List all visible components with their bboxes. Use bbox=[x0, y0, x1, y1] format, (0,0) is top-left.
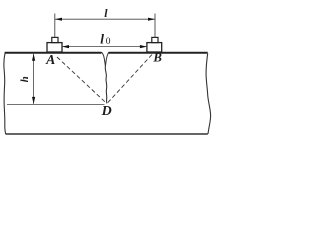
probe B stem / dimension-l right extension line bbox=[154, 14, 156, 38]
dimension h top arrowhead bbox=[32, 54, 35, 61]
dimension l0 left arrowhead bbox=[62, 45, 69, 48]
probe A stem / dimension-l left extension line bbox=[54, 14, 56, 38]
svg-text:h: h bbox=[19, 76, 31, 82]
dimension h line bbox=[33, 54, 35, 104]
dimension l0 line bbox=[62, 46, 147, 48]
svg-text:0: 0 bbox=[106, 37, 111, 47]
test block bottom edge bbox=[6, 133, 208, 135]
test block left broken edge bbox=[4, 53, 6, 134]
svg-text:B: B bbox=[152, 51, 162, 65]
test block top surface (right of notch) bbox=[109, 52, 208, 54]
svg-text:D: D bbox=[101, 104, 112, 119]
dimension h bottom arrowhead bbox=[32, 97, 35, 104]
dashed ray B to D bbox=[108, 55, 152, 103]
dimension l0 right arrowhead bbox=[140, 45, 147, 48]
crack notch left lip bbox=[102, 52, 106, 66]
test block right broken edge bbox=[206, 53, 211, 134]
h reference line at crack depth bbox=[7, 103, 105, 105]
probe B body bbox=[147, 43, 162, 52]
crack notch right lip bbox=[105, 52, 108, 66]
probe B connector bbox=[152, 37, 158, 42]
test block top surface bbox=[5, 52, 102, 54]
svg-text:l: l bbox=[100, 31, 104, 46]
dimension l line bbox=[55, 18, 155, 20]
svg-text:l: l bbox=[104, 6, 108, 20]
probe A connector bbox=[52, 37, 58, 42]
dimension l right arrowhead bbox=[148, 18, 155, 21]
dimension l left arrowhead bbox=[55, 18, 62, 21]
crack line down to D bbox=[105, 66, 107, 103]
dashed ray A to D bbox=[57, 57, 106, 103]
svg-text:A: A bbox=[45, 52, 55, 67]
probe A body bbox=[47, 43, 62, 52]
